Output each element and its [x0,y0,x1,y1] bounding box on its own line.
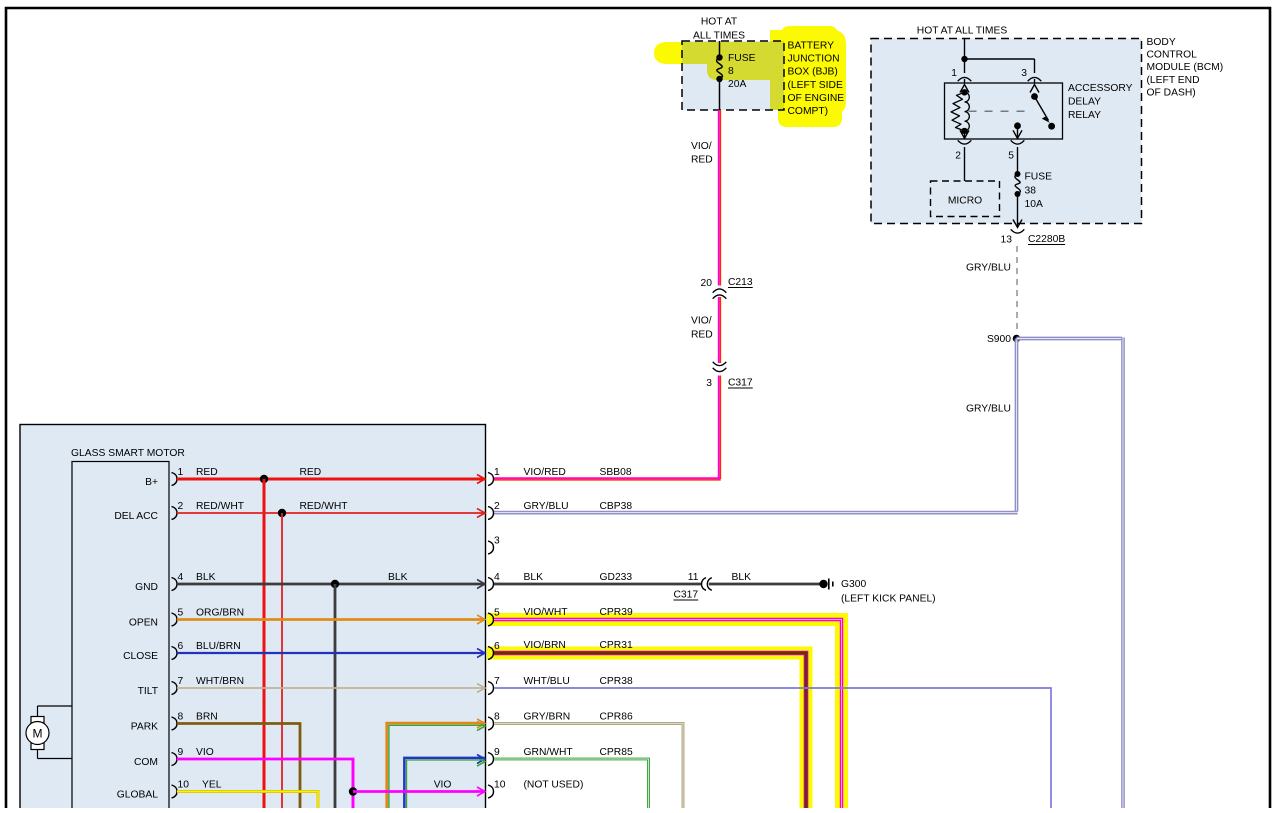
svg-text:4: 4 [178,572,184,583]
svg-text:9: 9 [178,747,184,758]
svg-text:CONTROL: CONTROL [1147,50,1198,61]
svg-text:ALL TIMES: ALL TIMES [693,31,745,42]
svg-text:5: 5 [1008,151,1014,162]
svg-text:VIO/: VIO/ [691,316,712,327]
svg-text:10A: 10A [1025,199,1043,210]
svg-text:RED/WHT: RED/WHT [300,501,349,512]
svg-text:PARK: PARK [131,722,158,733]
svg-text:1: 1 [951,68,957,79]
svg-text:G300: G300 [841,579,866,590]
svg-text:CPR85: CPR85 [600,747,633,758]
svg-text:C317: C317 [728,378,753,389]
svg-text:BLK: BLK [524,572,544,583]
svg-text:VIO/RED: VIO/RED [524,467,566,478]
svg-text:RELAY: RELAY [1068,110,1101,121]
svg-text:11: 11 [688,572,699,583]
svg-text:OPEN: OPEN [129,618,158,629]
svg-text:WHT/BLU: WHT/BLU [524,676,570,687]
svg-text:BLK: BLK [388,572,408,583]
svg-text:5: 5 [178,608,184,619]
svg-text:CBP38: CBP38 [600,501,633,512]
svg-text:8: 8 [178,712,184,723]
svg-text:6: 6 [494,641,500,652]
svg-text:C2280B: C2280B [1028,234,1065,245]
svg-text:COM: COM [134,757,158,768]
svg-text:4: 4 [494,572,500,583]
svg-text:DEL ACC: DEL ACC [114,511,158,522]
svg-text:GND: GND [135,582,158,593]
svg-text:3: 3 [494,536,500,547]
svg-text:RED: RED [300,467,322,478]
svg-text:S900: S900 [987,334,1011,345]
svg-text:7: 7 [178,676,184,687]
svg-text:VIO/BRN: VIO/BRN [524,640,566,651]
svg-text:C317: C317 [674,590,699,601]
svg-text:38: 38 [1025,186,1037,197]
svg-text:GLASS SMART MOTOR: GLASS SMART MOTOR [71,448,185,459]
svg-text:ACCESSORY: ACCESSORY [1068,83,1133,94]
svg-text:BRN: BRN [196,712,218,723]
svg-text:TILT: TILT [138,686,159,697]
svg-text:9: 9 [494,747,500,758]
svg-text:ORG/BRN: ORG/BRN [196,608,244,619]
svg-text:RED: RED [691,330,713,341]
svg-text:2: 2 [494,501,500,512]
svg-text:GRY/BLU: GRY/BLU [966,263,1011,274]
svg-text:MODULE (BCM): MODULE (BCM) [1147,62,1224,73]
svg-text:GLOBAL: GLOBAL [117,790,158,801]
svg-text:20A: 20A [728,79,746,90]
svg-text:VIO: VIO [196,747,214,758]
svg-text:MICRO: MICRO [948,196,982,207]
svg-text:HOT AT: HOT AT [701,17,738,28]
svg-text:M: M [33,727,43,741]
svg-text:BLU/BRN: BLU/BRN [196,641,241,652]
svg-text:YEL: YEL [202,780,222,791]
svg-text:GRN/WHT: GRN/WHT [524,747,574,758]
svg-text:3: 3 [706,378,712,389]
svg-text:(LEFT KICK PANEL): (LEFT KICK PANEL) [841,594,936,605]
svg-text:WHT/BRN: WHT/BRN [196,676,244,687]
svg-text:RED/WHT: RED/WHT [196,501,245,512]
svg-text:BLK: BLK [732,572,752,583]
svg-text:HOT AT ALL TIMES: HOT AT ALL TIMES [917,26,1008,37]
svg-text:6: 6 [178,641,184,652]
svg-text:B+: B+ [145,477,158,488]
svg-text:BODY: BODY [1147,37,1176,48]
svg-text:C213: C213 [728,277,753,288]
svg-text:GRY/BRN: GRY/BRN [524,712,571,723]
svg-text:13: 13 [1001,235,1013,246]
svg-text:RED: RED [691,155,713,166]
svg-text:OF DASH): OF DASH) [1147,87,1196,98]
svg-text:20: 20 [701,278,713,289]
svg-text:CPR31: CPR31 [600,640,633,651]
svg-text:GRY/BLU: GRY/BLU [966,404,1011,415]
svg-text:CLOSE: CLOSE [123,651,158,662]
svg-text:VIO/: VIO/ [691,141,712,152]
svg-text:10: 10 [494,780,506,791]
svg-text:CPR38: CPR38 [600,676,633,687]
svg-text:1: 1 [178,467,184,478]
svg-text:1: 1 [494,467,500,478]
svg-text:2: 2 [955,151,961,162]
svg-text:(LEFT END: (LEFT END [1147,75,1200,86]
svg-text:7: 7 [494,676,500,687]
svg-text:RED: RED [196,467,218,478]
svg-text:10: 10 [178,780,190,791]
svg-text:3: 3 [1021,68,1027,79]
svg-text:FUSE: FUSE [1025,172,1053,183]
svg-text:VIO: VIO [434,780,452,791]
svg-text:BLK: BLK [196,572,216,583]
svg-text:CPR86: CPR86 [600,712,633,723]
svg-text:DELAY: DELAY [1068,97,1101,108]
svg-text:CPR39: CPR39 [600,607,633,618]
svg-text:GRY/BLU: GRY/BLU [524,501,569,512]
svg-text:SBB08: SBB08 [600,467,632,478]
svg-text:(NOT USED): (NOT USED) [524,780,584,791]
svg-text:2: 2 [178,501,184,512]
svg-text:5: 5 [494,608,500,619]
svg-text:GD233: GD233 [600,572,633,583]
svg-text:VIO/WHT: VIO/WHT [524,607,569,618]
svg-text:8: 8 [494,712,500,723]
